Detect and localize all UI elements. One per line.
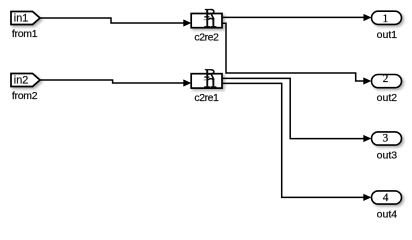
svg-text:4: 4	[383, 192, 389, 204]
svg-text:out3: out3	[377, 149, 398, 161]
svg-text:in2: in2	[14, 75, 28, 87]
svg-text:from1: from1	[12, 28, 38, 40]
svg-text:3: 3	[383, 132, 389, 144]
svg-text:out4: out4	[377, 208, 398, 220]
svg-text:out2: out2	[377, 92, 398, 104]
svg-text:2: 2	[383, 73, 389, 85]
svg-text:in1: in1	[14, 13, 28, 25]
svg-text:1: 1	[383, 13, 389, 25]
svg-text:c2re2: c2re2	[194, 32, 219, 44]
svg-text:out1: out1	[377, 29, 398, 41]
svg-text:from2: from2	[12, 90, 38, 102]
svg-text:c2re1: c2re1	[194, 92, 219, 104]
